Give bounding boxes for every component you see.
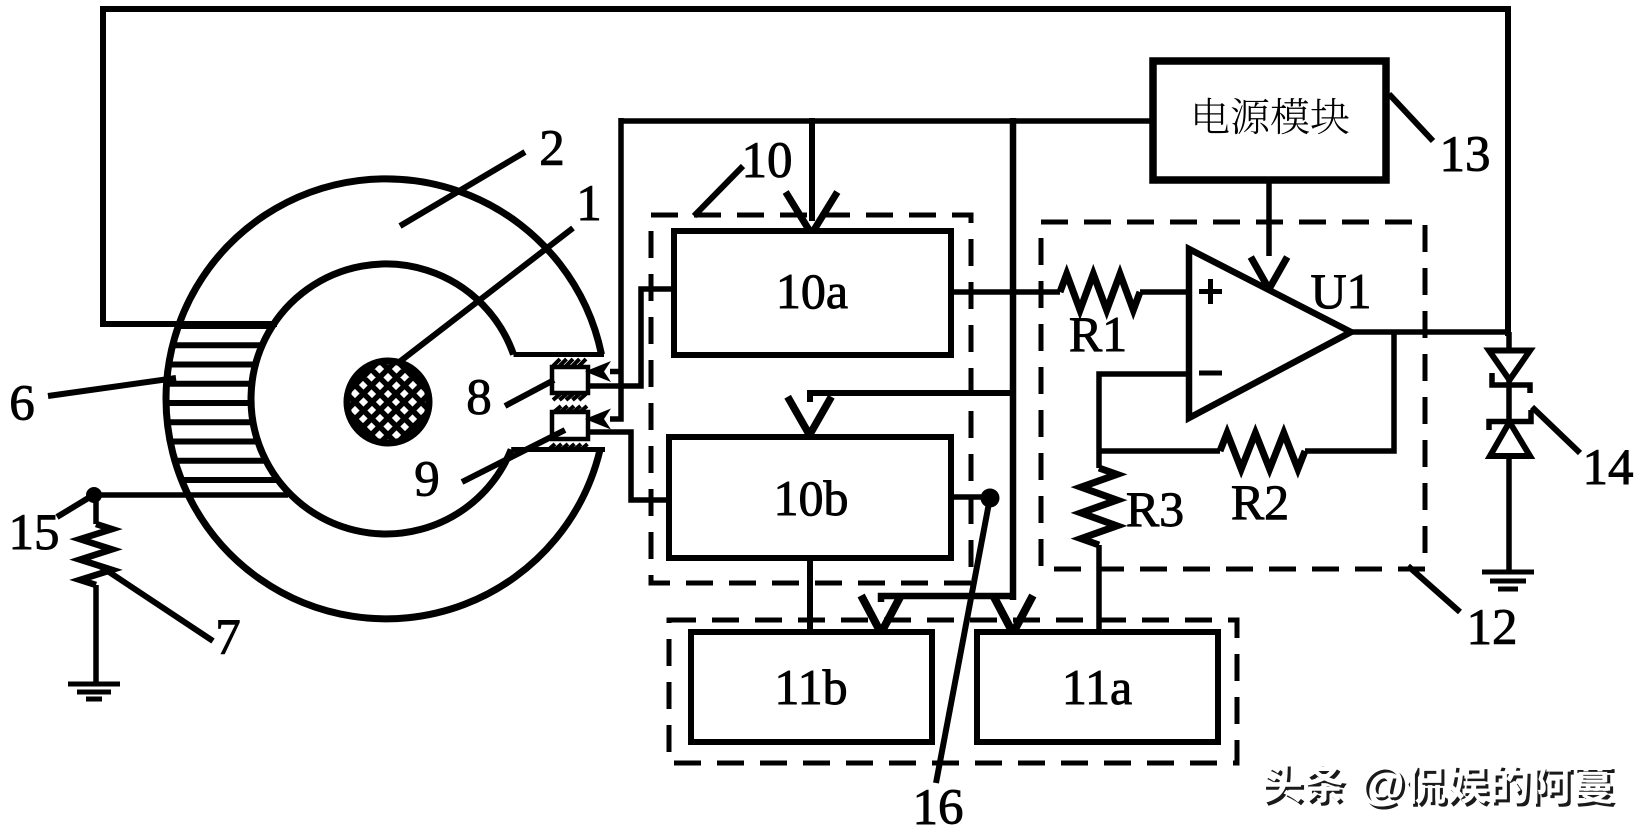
resistor R2 feedback xyxy=(1099,333,1394,469)
label 7 leader line xyxy=(100,566,241,666)
arrow into 10a xyxy=(788,195,836,234)
svg-text:11b: 11b xyxy=(774,659,847,715)
wire supply drop to 11a 11b xyxy=(881,118,1013,602)
svg-text:10a: 10a xyxy=(776,263,848,319)
wire supply to op-amp xyxy=(1266,180,1272,256)
wire 10b down to 11b xyxy=(807,558,813,631)
svg-text:8: 8 xyxy=(466,370,492,426)
node 15 junction dot xyxy=(86,487,102,503)
wire sensor 8 output to 10a xyxy=(588,289,672,386)
svg-text:9: 9 xyxy=(414,452,440,508)
label 15 leader line xyxy=(9,497,91,561)
node 15 wire to winding xyxy=(94,492,288,498)
air gap bottom edge xyxy=(511,447,605,452)
wire op-amp minus input xyxy=(1099,374,1186,451)
dashed box 12 xyxy=(1041,222,1425,569)
block 11a xyxy=(977,632,1218,742)
svg-text:U1: U1 xyxy=(1310,263,1371,319)
svg-text:2: 2 xyxy=(539,121,565,177)
watermark 头条 @侃娱的阿蔓 xyxy=(1263,757,1616,812)
ground below resistor 7 xyxy=(68,684,120,699)
label 12 leader line xyxy=(1408,566,1518,656)
arrow into 11a xyxy=(995,599,1031,633)
block 10b xyxy=(669,437,951,558)
block 10a xyxy=(674,231,951,355)
wire op-amp output xyxy=(1351,329,1508,335)
block 11b xyxy=(691,632,932,742)
label 10 leader line xyxy=(694,133,793,216)
toroid core inner circle xyxy=(251,264,513,534)
wire 10a output to R1 and op-amp plus input xyxy=(951,274,1186,310)
dashed box 10 xyxy=(651,215,971,583)
svg-text:10b: 10b xyxy=(774,470,849,526)
primary conductor 1 (hatched circle) xyxy=(246,342,530,462)
label 8 leader line xyxy=(466,370,554,426)
svg-text:@: @ xyxy=(1360,757,1405,809)
arrow into sensor 8 xyxy=(585,361,611,382)
ground below diodes xyxy=(1482,572,1534,589)
arrow into 11b xyxy=(863,599,899,633)
dashed box 16 xyxy=(669,620,1237,763)
wire supply drop to hall sensors xyxy=(610,118,621,419)
wire diode chain xyxy=(1506,332,1512,572)
label 14 leader line xyxy=(1532,407,1634,496)
svg-text:R2: R2 xyxy=(1231,474,1289,530)
power rail wire from supply xyxy=(621,118,1153,124)
toroid core outer circle 2 xyxy=(166,179,601,619)
svg-text:6: 6 xyxy=(9,376,35,432)
label 13 leader line xyxy=(1389,94,1491,183)
hall sensor 8 xyxy=(552,367,588,393)
svg-text:R1: R1 xyxy=(1069,306,1127,362)
svg-text:R3: R3 xyxy=(1126,481,1184,537)
svg-text:10: 10 xyxy=(742,133,793,189)
arrow into sensor 9 xyxy=(585,409,611,430)
power module label 电源模块 xyxy=(1195,98,1349,135)
wire main current loop frame xyxy=(103,9,1508,336)
arrow into 10b xyxy=(790,400,830,435)
wire supply drop into 10a xyxy=(809,118,815,221)
air gap top edge xyxy=(514,352,605,357)
power module box 13 xyxy=(1153,61,1386,180)
wire sensor 9 output to 10b xyxy=(588,432,667,500)
gap face hatching below sensor 9 xyxy=(548,444,588,450)
winding 6 on core xyxy=(165,326,279,480)
resistor 7 xyxy=(80,495,112,684)
gap face hatching above sensor 9 xyxy=(554,406,587,412)
gap face hatching below sensor 8 xyxy=(553,394,586,400)
label 9 leader line xyxy=(414,430,565,508)
svg-text:11a: 11a xyxy=(1062,659,1132,715)
arrow into op-amp U1 xyxy=(1253,260,1286,289)
node 16 dot xyxy=(981,489,1000,508)
protection diode D2 xyxy=(1489,410,1531,456)
svg-text:14: 14 xyxy=(1583,440,1634,496)
resistor R3 xyxy=(1081,451,1117,632)
op-amp U1 xyxy=(1189,249,1372,418)
label 6 leader line xyxy=(9,376,176,432)
svg-text:1: 1 xyxy=(576,176,602,232)
svg-text:7: 7 xyxy=(215,610,241,666)
svg-text:12: 12 xyxy=(1467,600,1518,656)
svg-text:16: 16 xyxy=(913,780,964,828)
label 2 leader line xyxy=(400,121,565,226)
svg-text:15: 15 xyxy=(9,505,60,561)
gap face hatching above sensor 8 xyxy=(553,359,586,366)
protection diode D1 xyxy=(1489,351,1530,394)
svg-text:13: 13 xyxy=(1440,127,1491,183)
label 16 leader line xyxy=(913,503,990,828)
label 1 leader line xyxy=(398,176,602,363)
wire supply branch into 10b xyxy=(810,393,1013,402)
hall sensor 9 xyxy=(552,412,588,439)
wire 10b output stub to node 16 xyxy=(951,494,988,500)
